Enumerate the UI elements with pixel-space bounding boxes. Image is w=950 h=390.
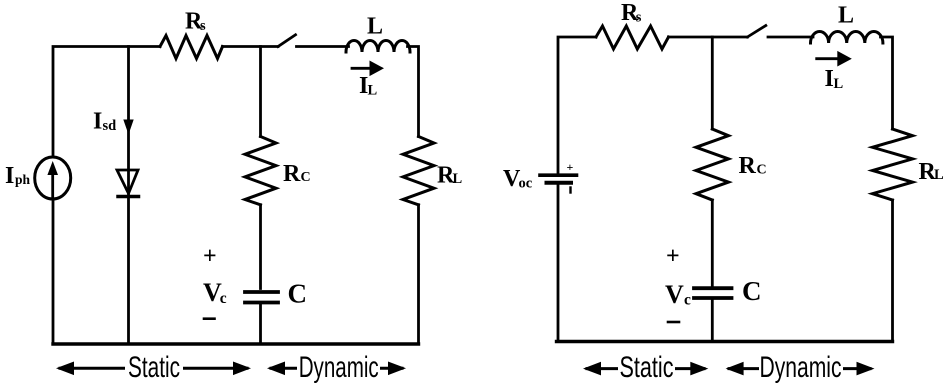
svg-text:I: I [825, 66, 834, 92]
svg-text:+: + [666, 244, 680, 270]
wire: junction down to Rc [259, 47, 262, 137]
wire: left branch top (Iph to top-left corner to Rs) [53, 47, 160, 158]
label Rc (right) [739, 153, 767, 179]
svg-text:+: + [203, 244, 217, 270]
wire: Rc to capacitor [259, 205, 262, 289]
svg-text:s: s [200, 18, 206, 34]
resistor Rs (right) [596, 26, 669, 49]
svg-text:c: c [220, 290, 227, 307]
svg-text:V: V [665, 280, 684, 309]
svg-text:C: C [742, 276, 762, 306]
wire: Rs to switch pivot (through Rc junction) [669, 36, 748, 39]
label Vc (left cap) [203, 278, 227, 307]
label C (left) [288, 279, 308, 309]
label minus (battery) [569, 188, 571, 193]
wire: junction down to Rc (right) [711, 37, 714, 129]
arrow IL (left) [352, 61, 384, 77]
label Isd [93, 109, 116, 135]
wire: Rs to switch pivot (through Rc junction) [223, 45, 279, 48]
label L (right) [838, 3, 854, 29]
svg-text:+: + [567, 160, 574, 174]
label + (battery) [567, 160, 574, 174]
label + (right cap) [666, 244, 680, 270]
label RL (right) [919, 159, 945, 185]
svg-text:C: C [757, 163, 767, 178]
label Rs (left) [185, 9, 206, 35]
arrow Isd (on wire) [123, 120, 133, 135]
svg-text:I: I [93, 109, 102, 135]
svg-text:c: c [684, 292, 691, 309]
annotation Static (left) [56, 351, 251, 384]
label C (right) [742, 276, 762, 306]
label Vc (right cap) [665, 280, 691, 309]
wire: capacitor to bottom (right) [711, 300, 714, 342]
wire: switch to inductor [297, 45, 349, 48]
label L (left) [367, 14, 383, 40]
inductor L (right) [811, 31, 883, 43]
svg-text:L: L [368, 83, 378, 99]
label Voc [503, 166, 533, 192]
resistor Rs (left) [160, 36, 223, 59]
wire: switch to inductor (right) [768, 36, 813, 39]
wire: inductor to top-right corner down to RL [408, 47, 419, 137]
switch (left) [278, 35, 296, 47]
svg-text:R: R [283, 161, 301, 187]
capacitor C (right) [694, 288, 732, 298]
annotation Dynamic (left) [267, 351, 406, 384]
label IL (left) [359, 73, 378, 99]
resistor Rc (left) [245, 137, 276, 205]
label minus (left cap) [204, 317, 215, 320]
svg-text:sd: sd [103, 118, 117, 134]
svg-text:I: I [5, 163, 14, 189]
wire: RL to bottom-right corner (right) [891, 200, 894, 342]
arrow IL (right) [817, 51, 852, 67]
resistor RL (right) [873, 129, 913, 200]
inductor L (left) [346, 41, 410, 53]
annotation Static (right) [583, 351, 708, 384]
svg-text:L: L [367, 14, 383, 40]
label Rs (right) [621, 0, 642, 26]
svg-text:L: L [834, 76, 844, 92]
battery Voc [540, 175, 577, 183]
label IL (right) [825, 66, 844, 92]
svg-text:Static: Static [128, 351, 180, 384]
svg-text:oc: oc [519, 176, 533, 192]
wire: Rc to capacitor (right) [711, 200, 714, 286]
svg-text:Dynamic: Dynamic [299, 351, 379, 384]
wire: capacitor to bottom [259, 305, 262, 345]
svg-text:C: C [288, 279, 308, 309]
wire: bottom rail (left circuit) [53, 342, 419, 345]
label + (left cap) [203, 244, 217, 270]
resistor RL (left) [403, 137, 434, 205]
svg-text:ph: ph [15, 172, 31, 187]
svg-text:Static: Static [620, 351, 674, 384]
capacitor C (left) [245, 292, 278, 303]
wire: diode branch top with Isd [127, 47, 130, 197]
annotation Dynamic (right) [726, 351, 875, 384]
svg-text:C: C [301, 170, 311, 185]
current source Iph [35, 157, 71, 199]
switch (right) [747, 26, 765, 38]
svg-text:s: s [636, 10, 642, 26]
label RL (left) [437, 163, 463, 189]
wire: RL to bottom-right corner [417, 205, 420, 344]
label minus (right cap) [668, 321, 679, 324]
svg-text:Dynamic: Dynamic [760, 351, 842, 384]
wire: bottom rail (right circuit) [557, 340, 893, 343]
label Rc (left) [283, 161, 311, 187]
diode D [117, 170, 139, 197]
label Iph [5, 163, 31, 189]
svg-text:R: R [739, 153, 757, 179]
wire: diode to bottom [127, 198, 130, 344]
svg-text:L: L [453, 171, 463, 187]
wire: Voc branch top (battery to top-left corner to Rs) [558, 37, 596, 173]
svg-text:L: L [934, 167, 944, 183]
wire: battery to bottom-left corner [557, 185, 560, 342]
resistor Rc (right) [696, 129, 729, 200]
wire: inductor to top-right corner down to RL (right) [881, 37, 893, 129]
wire: left branch bottom (Iph to bottom-left corner) [52, 199, 55, 344]
svg-text:L: L [838, 3, 854, 29]
